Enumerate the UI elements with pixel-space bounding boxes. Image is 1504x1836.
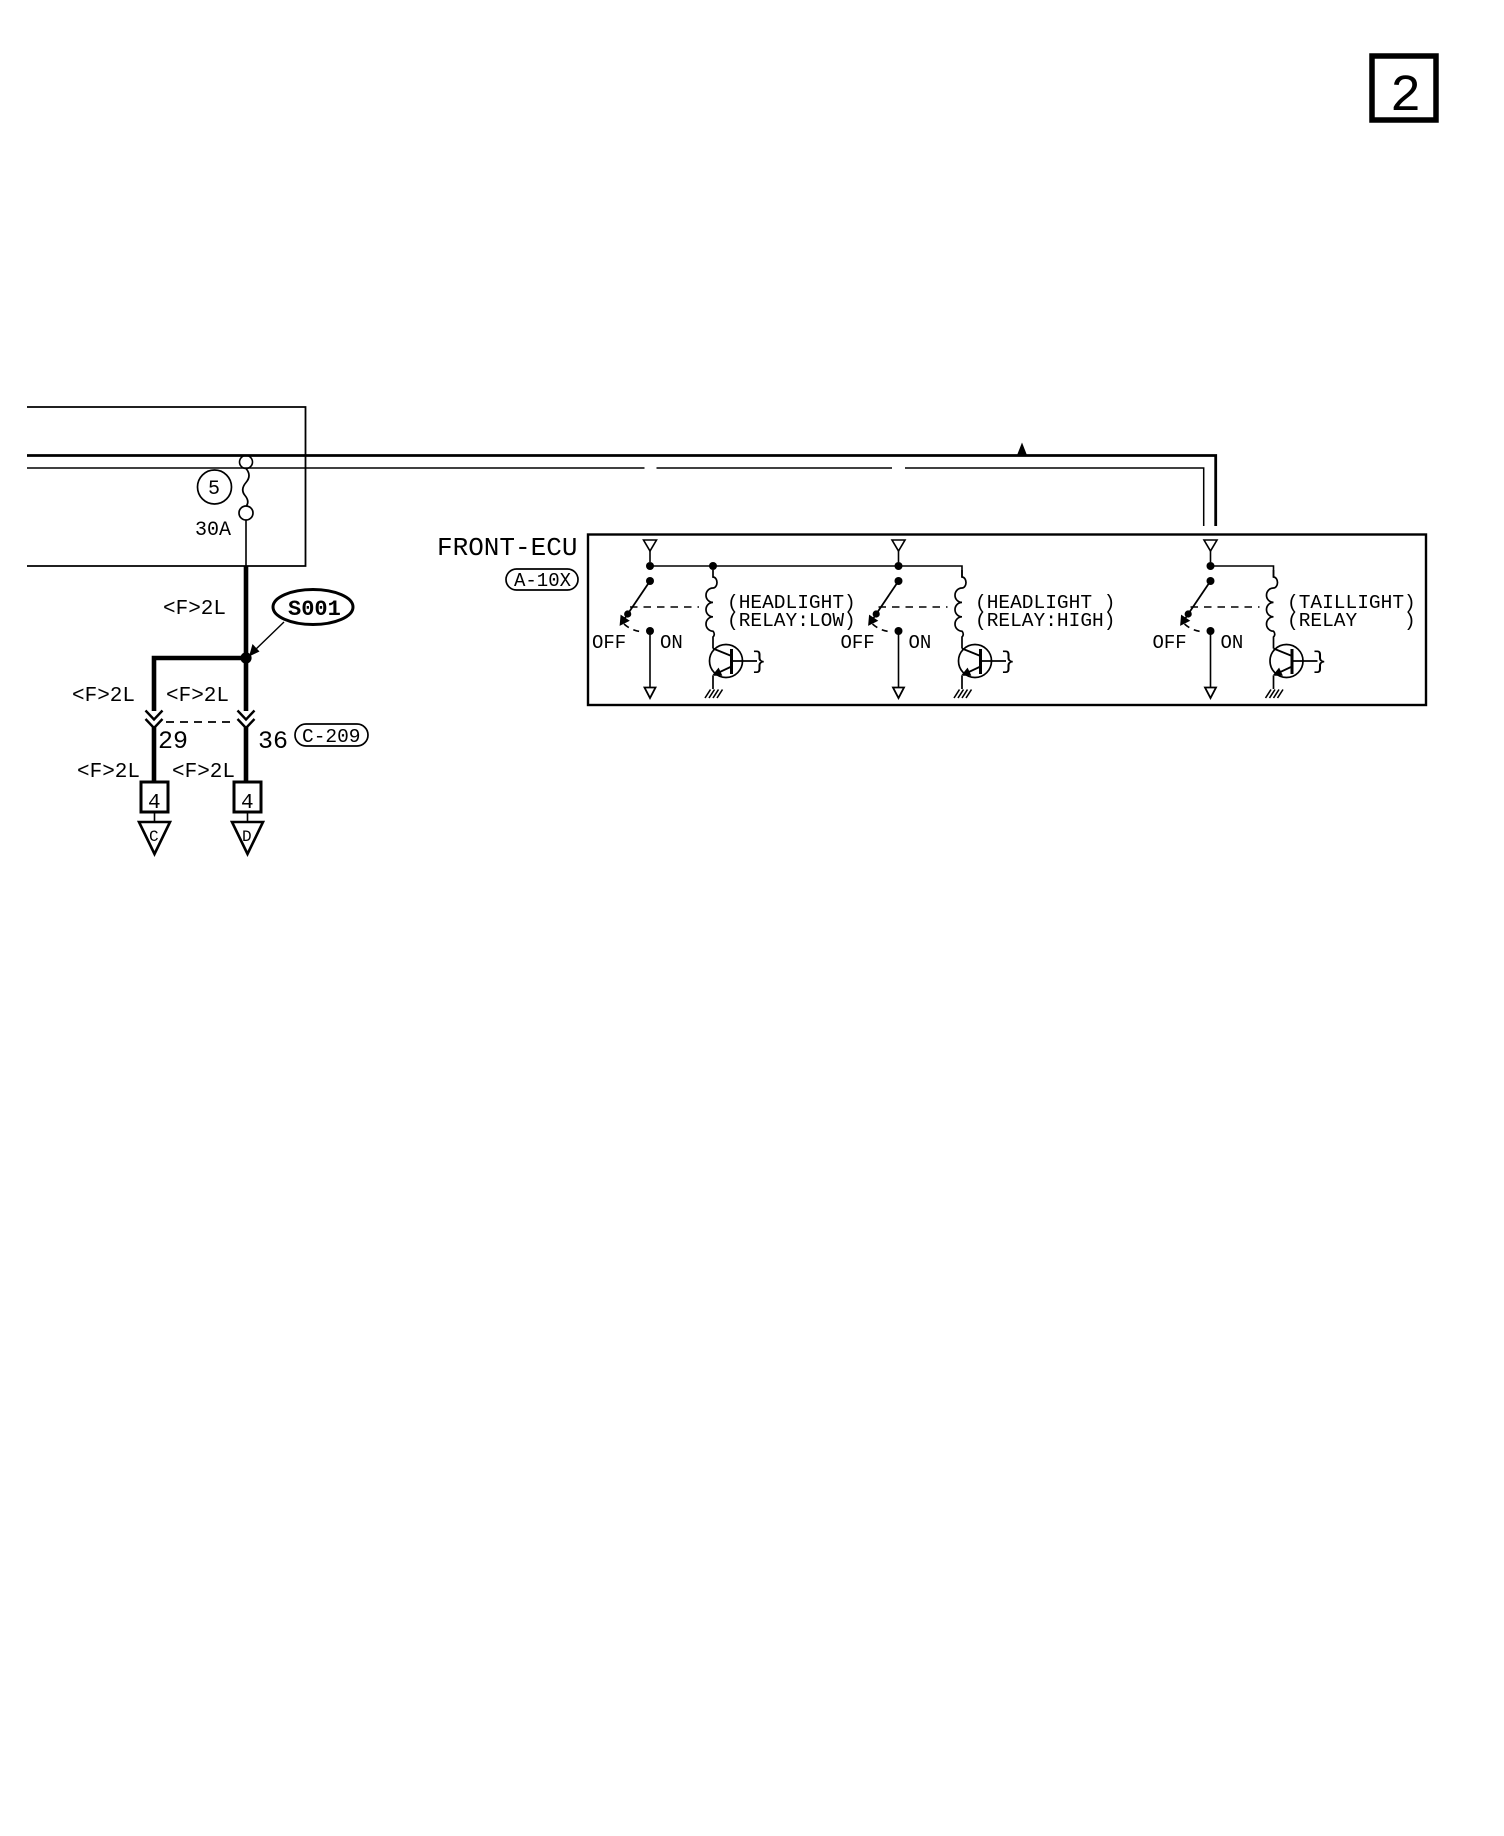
connector A-10X callout bbox=[506, 569, 578, 592]
svg-text:29: 29 bbox=[158, 727, 188, 756]
relay K2 output triangle to pin2 bbox=[893, 688, 904, 699]
svg-text:ON: ON bbox=[660, 632, 683, 654]
wire (F)2L to D bbox=[172, 727, 246, 784]
svg-text:C-209: C-209 bbox=[302, 726, 361, 748]
relay K2 coil bbox=[955, 570, 966, 649]
node S001 junction dot bbox=[240, 652, 251, 663]
svg-text:<F>2L: <F>2L bbox=[163, 598, 226, 621]
FRONT-ECU box U1 bbox=[588, 535, 1426, 706]
svg-text:OFF: OFF bbox=[592, 632, 626, 654]
relay K2 switch bbox=[841, 577, 948, 687]
dashed connector line C-209 bbox=[166, 721, 236, 723]
connector box 4 (left) bbox=[141, 782, 168, 821]
transistor Q1 bbox=[710, 645, 767, 690]
svg-text:4: 4 bbox=[148, 792, 161, 815]
svg-text:(RELAY:HIGH): (RELAY:HIGH) bbox=[975, 610, 1115, 632]
ground (relay K3 driver) bbox=[1266, 690, 1284, 699]
relay K3 coil bbox=[1267, 570, 1278, 649]
relay K3 name label bbox=[1287, 592, 1416, 632]
svg-text:}: } bbox=[1001, 649, 1015, 676]
wire (F)2L to C bbox=[77, 727, 154, 784]
relay K2 headlight relay high : input triangle pin4 bbox=[892, 540, 905, 562]
connector box 4 (right) bbox=[234, 782, 261, 821]
svg-text:OFF: OFF bbox=[1153, 632, 1187, 654]
node: pin5 feed wire to coil bbox=[1207, 562, 1274, 577]
svg-text:FRONT-ECU: FRONT-ECU bbox=[437, 533, 577, 563]
wire (F)2L from fuse 5, thick feed bbox=[163, 566, 246, 658]
svg-text:2: 2 bbox=[1390, 67, 1421, 126]
bus wire (battery line, upper) bbox=[27, 456, 1216, 527]
transistor Q2 bbox=[959, 645, 1016, 690]
transistor Q3 bbox=[1270, 645, 1327, 690]
svg-text:A-10X: A-10X bbox=[514, 570, 572, 592]
relay K2 name label bbox=[975, 592, 1115, 632]
bus wire (lower rail of the pair) bbox=[27, 468, 1204, 526]
svg-text:<F>2L: <F>2L bbox=[172, 761, 235, 784]
node: pin3 feed wire to coils bbox=[646, 562, 962, 577]
off-page triangle C bbox=[139, 822, 170, 854]
fuse 5 (30A) bbox=[195, 456, 253, 567]
splice S001 callout bbox=[249, 590, 353, 657]
relay K3 taillight relay : input triangle pin5 bbox=[1204, 540, 1217, 562]
relay K3 switch bbox=[1153, 577, 1260, 687]
relay K3 output triangle to pin8 bbox=[1205, 688, 1216, 699]
relay K1 headlight relay low : input triangle pin3 bbox=[644, 540, 657, 562]
connector pass-through chevrons C-209 pin 36 bbox=[238, 711, 255, 729]
page number box 2 bbox=[1372, 56, 1436, 126]
pin label 36 bbox=[258, 727, 288, 756]
relay K1 name label bbox=[727, 592, 856, 632]
off-page triangle D bbox=[232, 822, 263, 854]
svg-text:36: 36 bbox=[258, 727, 288, 756]
relay K1 coil bbox=[706, 570, 717, 649]
fusible link / junction box (top-left, cut off at page edge) bbox=[27, 407, 306, 566]
svg-text:ON: ON bbox=[1221, 632, 1244, 654]
FRONT-ECU label bbox=[437, 533, 577, 563]
relay K1 switch bbox=[592, 577, 699, 687]
svg-text:OFF: OFF bbox=[841, 632, 875, 654]
up arrow marker on bus bbox=[1017, 443, 1028, 457]
svg-text:<F>2L: <F>2L bbox=[72, 685, 135, 708]
svg-text:C: C bbox=[149, 828, 159, 846]
ground (relay K2 driver) bbox=[954, 690, 972, 699]
connector pass-through chevrons C-209 pin 29 bbox=[146, 711, 163, 729]
pin label 29 bbox=[158, 727, 188, 756]
svg-text:D: D bbox=[242, 828, 252, 846]
svg-text:<F>2L: <F>2L bbox=[166, 685, 229, 708]
relay K1 output triangle to pin6 bbox=[645, 688, 656, 699]
svg-text:}: } bbox=[752, 649, 766, 676]
wire branch left from S001 bbox=[72, 658, 248, 711]
svg-text:S001: S001 bbox=[288, 597, 341, 622]
ground (relay K1 driver) bbox=[705, 690, 723, 699]
svg-text:4: 4 bbox=[241, 792, 254, 815]
connector C-209 callout bbox=[295, 724, 368, 748]
svg-text:<F>2L: <F>2L bbox=[77, 761, 140, 784]
svg-text:ON: ON bbox=[909, 632, 932, 654]
svg-text:30A: 30A bbox=[195, 519, 231, 542]
svg-text:(RELAY:LOW): (RELAY:LOW) bbox=[727, 610, 856, 632]
svg-text:5: 5 bbox=[208, 478, 220, 501]
svg-text:(RELAY ): (RELAY ) bbox=[1287, 610, 1416, 632]
svg-text:}: } bbox=[1313, 649, 1327, 676]
